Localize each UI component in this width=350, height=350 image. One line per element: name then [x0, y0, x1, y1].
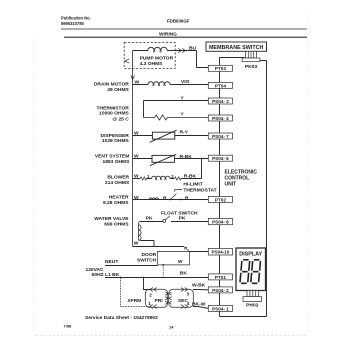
PT03 top link to PK03 [220, 58, 245, 62]
blower to vent junction wire [201, 159, 203, 179]
svg-text:SWITCH: SWITCH [137, 258, 157, 264]
svg-text:7/98: 7/98 [64, 324, 73, 329]
connector box PS04-7 [208, 133, 232, 139]
svg-text:DRAIN MOTOR: DRAIN MOTOR [94, 81, 129, 87]
membrane switch box [206, 42, 267, 51]
blower thermal fuse right zigzag [174, 177, 180, 180]
blower coil [152, 176, 170, 178]
svg-text:PS04-10: PS04-10 [211, 250, 229, 255]
bus arrow below pump box [131, 51, 135, 246]
vent rect symbol [152, 155, 174, 162]
svg-text:BU: BU [189, 45, 197, 51]
svg-text:THERMOSTAT: THERMOSTAT [183, 187, 216, 193]
svg-text:W: W [134, 241, 139, 247]
svg-text:1028 OHMS: 1028 OHMS [102, 138, 130, 144]
float switch symbol [163, 219, 166, 222]
transformer secondary bottom lead BK-W to PS04-1 [193, 307, 208, 309]
connector box PS04-1 [208, 305, 232, 311]
ECU bottom wire to membrane loop [220, 61, 267, 317]
svg-text:BLOWER: BLOWER [107, 175, 129, 181]
svg-text:Y: Y [181, 112, 185, 118]
thermistor loop wires [144, 101, 209, 118]
svg-text:HI-LIMIT: HI-LIMIT [183, 182, 202, 188]
svg-text:PS04- 6: PS04- 6 [212, 156, 229, 161]
svg-text:HEATER: HEATER [109, 195, 129, 201]
svg-text:PT04: PT04 [215, 83, 226, 88]
svg-text:3: 3 [187, 291, 190, 296]
L1 junction dots [120, 277, 122, 279]
svg-text:R-Y: R-Y [180, 130, 189, 136]
door switch contact arrow [185, 247, 190, 251]
wire BU from pump to PT03 [176, 51, 208, 68]
svg-text:9.28 OHMS: 9.28 OHMS [103, 200, 129, 206]
water valve coil [139, 222, 142, 241]
svg-text:PS04- 1: PS04- 1 [212, 306, 229, 311]
svg-text:W: W [135, 80, 140, 86]
svg-text:WATER VALVE: WATER VALVE [94, 216, 129, 222]
svg-text:Service Data Sheet - 154278902: Service Data Sheet - 154278902 [85, 315, 158, 321]
svg-text:1: 1 [148, 301, 151, 306]
svg-text:VENT SYSTEM: VENT SYSTEM [95, 154, 130, 160]
svg-text:@ 25 C: @ 25 C [112, 116, 129, 122]
heater wire [133, 199, 209, 201]
svg-text:1893 OHMS: 1893 OHMS [102, 159, 130, 165]
svg-text:5995310785: 5995310785 [61, 21, 84, 26]
svg-text:PT01: PT01 [215, 275, 226, 280]
svg-text:BK-W: BK-W [192, 301, 206, 307]
svg-text:Publication No.: Publication No. [61, 16, 91, 21]
heater coil [149, 198, 158, 200]
pump motor coil [133, 47, 176, 50]
page edge artifact right dotted line [308, 10, 310, 334]
svg-text:4: 4 [187, 301, 190, 306]
svg-text:L1 BK: L1 BK [105, 272, 120, 278]
svg-text:W: W [134, 173, 139, 179]
transformer secondary winding box [169, 289, 194, 307]
svg-text:PT03: PT03 [215, 66, 226, 71]
svg-text:WIRING: WIRING [159, 31, 177, 37]
connector box PT01 [208, 274, 232, 280]
svg-text:THERMISTOR: THERMISTOR [97, 105, 130, 111]
pump motor arrow on left dashed edge [125, 59, 129, 63]
svg-text:60HZ: 60HZ [92, 272, 104, 278]
svg-text:699 OHMS: 699 OHMS [104, 221, 129, 227]
connector box PS04-2 [208, 287, 232, 293]
connector box PT03 [208, 65, 232, 71]
svg-text:BK: BK [180, 271, 188, 277]
svg-text:W: W [134, 154, 139, 160]
display box [236, 248, 266, 291]
hi-limit thermostat symbol [170, 199, 172, 201]
drain motor coil [133, 82, 209, 85]
svg-text:FDB836GF: FDB836GF [167, 19, 190, 24]
pump motor dashed box [124, 43, 175, 69]
svg-text:DISPENSER: DISPENSER [101, 133, 130, 139]
svg-text:214 OHMS: 214 OHMS [105, 180, 130, 186]
dispenser wire [133, 135, 209, 137]
door box bottom junction [162, 264, 164, 266]
wire door box to PS04-10 [190, 251, 209, 253]
svg-text:PH02: PH02 [246, 303, 259, 309]
svg-text:28 OHMS: 28 OHMS [107, 87, 129, 93]
connector box PT04 [208, 82, 232, 88]
blower wire [133, 178, 202, 180]
svg-text:MEMBRANE SWITCH: MEMBRANE SWITCH [209, 45, 264, 51]
svg-text:PRI: PRI [155, 298, 164, 304]
svg-text:W: W [178, 259, 183, 265]
transformer primary top lead [144, 278, 151, 290]
svg-text:NEUT: NEUT [105, 259, 118, 265]
svg-text:PT02: PT02 [215, 197, 226, 202]
connector box PS04-10 [208, 248, 232, 255]
display digit left [240, 260, 261, 284]
svg-text:2: 2 [149, 292, 152, 297]
svg-text:VIO: VIO [181, 79, 190, 85]
NEUT wire [105, 265, 158, 267]
svg-text:W-BK: W-BK [192, 283, 206, 289]
dispenser rect symbol [152, 132, 174, 139]
blower thermal fuse left zigzag [140, 177, 146, 180]
svg-text:PUMP MOTOR: PUMP MOTOR [140, 55, 174, 61]
header rule upper [61, 28, 307, 30]
svg-text:PS04- 4: PS04- 4 [212, 116, 229, 121]
svg-text:DOOR: DOOR [142, 252, 157, 258]
door switch box [158, 252, 190, 265]
svg-text:PS04- 2: PS04- 2 [212, 288, 229, 293]
PH02 ribbon connector [247, 291, 259, 297]
svg-text:10000 OHMS: 10000 OHMS [99, 111, 129, 117]
thermistor zigzag [144, 115, 209, 120]
svg-text:R: R [163, 195, 167, 201]
svg-text:W: W [134, 130, 139, 136]
connector box PS04-4 [208, 115, 232, 121]
dispenser diagonal [150, 130, 177, 142]
svg-text:W: W [134, 195, 139, 201]
water valve bottom wire to door area [141, 241, 154, 247]
svg-text:XFRM: XFRM [127, 298, 141, 304]
header rule lower [64, 36, 307, 38]
svg-text:120VAC: 120VAC [85, 267, 104, 273]
svg-text:UNIT: UNIT [225, 182, 237, 188]
transformer center coupling chevrons [165, 292, 171, 295]
connector box PS04-3 [208, 98, 232, 104]
svg-text:R-BK: R-BK [180, 154, 193, 160]
PK03 ribbon connector [246, 51, 257, 58]
connector box PS04-6 [208, 155, 232, 161]
vent diagonal [150, 154, 176, 165]
svg-text:14: 14 [169, 325, 174, 330]
svg-text:R-BK: R-BK [184, 174, 197, 180]
L1 BK wire [105, 277, 208, 279]
svg-text:PK: PK [146, 215, 153, 221]
transformer primary bottom lead [121, 278, 151, 307]
svg-text:4.3 OHMS: 4.3 OHMS [140, 61, 164, 67]
connector box PT02 [208, 197, 232, 203]
page edge artifact bottom dashed line [36, 335, 308, 337]
svg-text:PS04- 7: PS04- 7 [212, 134, 229, 139]
svg-text:PS04- 8: PS04- 8 [212, 220, 229, 225]
ECU column vertical line [219, 58, 221, 317]
vent system wire [133, 158, 209, 160]
svg-text:PS04- 3: PS04- 3 [212, 99, 229, 104]
svg-text:PK: PK [179, 215, 186, 221]
float switch wire PK [141, 221, 209, 223]
quick disconnect chevrons on BU wire [178, 48, 185, 52]
transformer secondary top lead W-BK to PS04-2 [193, 289, 208, 291]
svg-text:DISPLAY: DISPLAY [239, 252, 262, 258]
connector box PS04-8 [208, 218, 232, 224]
dashed vertical neutral to L1 [162, 266, 164, 278]
transformer primary winding box [145, 289, 167, 307]
svg-text:R: R [185, 195, 189, 201]
page edge artifact left dotted line [33, 38, 35, 332]
bus bottom turn W wire [133, 245, 185, 248]
svg-text:PK03: PK03 [245, 64, 258, 70]
